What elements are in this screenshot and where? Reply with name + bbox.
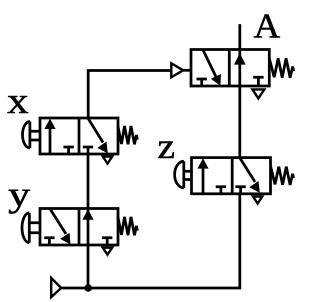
valve x right-box blocked port T <box>83 147 93 154</box>
svg-text:z: z <box>158 126 176 166</box>
valve z pushbutton actuator <box>175 161 192 188</box>
valve z right-box diagonal arrow <box>240 158 260 193</box>
valve x return spring <box>118 126 138 145</box>
valve z left-box up arrow <box>197 158 208 193</box>
valve z return spring <box>271 167 294 185</box>
node junction dot <box>84 284 92 292</box>
valve y body <box>40 209 118 246</box>
node A output line (through valve A right box) <box>238 24 241 158</box>
svg-text:y: y <box>8 175 31 214</box>
valve A left-box diagonal arrow <box>203 50 221 86</box>
valve A return spring <box>269 58 293 78</box>
valve x right-box diagonal arrow <box>88 118 108 153</box>
valve x body <box>40 118 118 154</box>
valve x exhaust triangle <box>103 157 112 164</box>
valve y left-box diagonal arrow <box>50 209 70 245</box>
valve A exhaust triangle <box>252 89 264 98</box>
valve y pushbutton actuator <box>22 213 40 243</box>
valve y right-box up arrow <box>82 209 93 220</box>
valve A body <box>191 50 269 87</box>
pilot actuator triangle of valve A <box>171 63 183 77</box>
svg-text:A: A <box>254 7 281 45</box>
svg-text:x: x <box>7 81 29 122</box>
valve A right-box blocked port T <box>253 77 263 86</box>
wire junction column up through valves x and y <box>87 154 90 288</box>
valve x left-box up arrow <box>44 119 55 153</box>
wire pilot signal line to valve A <box>88 71 171 119</box>
valve z exhaust triangle <box>253 197 262 204</box>
wire supply line from valve z bottom to bottom manifold and manifold to source <box>61 194 240 288</box>
valve A right-box up arrow <box>234 53 246 65</box>
valve y left-box blocked port T <box>44 238 54 245</box>
valve z left-box blocked port T <box>216 187 226 194</box>
valve x pushbutton actuator <box>22 122 40 149</box>
valve y right-box blocked port T <box>102 238 112 245</box>
valve x left-box blocked port T <box>63 147 73 154</box>
valve y return spring <box>118 216 138 235</box>
wire pilot triangle tip to valve A body <box>183 69 191 72</box>
valve y exhaust triangle <box>103 248 112 255</box>
compressed air source triangle <box>51 278 61 297</box>
valve A left-box blocked port T <box>197 79 207 86</box>
valve z right-box blocked port T <box>235 187 245 194</box>
valve z body <box>192 158 271 194</box>
